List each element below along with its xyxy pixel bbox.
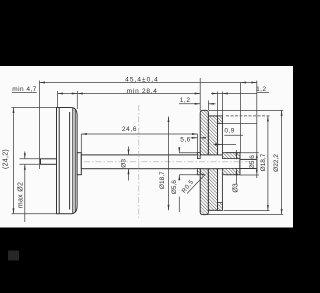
svg-text:1,2: 1,2 [180,97,191,104]
svg-text:Ø3: Ø3 [121,159,128,168]
svg-text:0,9: 0,9 [224,128,234,135]
svg-text:45,4±0,4: 45,4±0,4 [125,76,159,83]
svg-text:(24,2): (24,2) [3,149,10,169]
svg-text:Ø3: Ø3 [232,183,239,192]
svg-text:min 28,4: min 28,4 [127,88,158,95]
svg-text:min 4,7: min 4,7 [12,86,36,93]
svg-text:Ø5,6: Ø5,6 [171,180,178,194]
svg-text:Ø18,7: Ø18,7 [159,171,166,189]
svg-text:Ø22,2: Ø22,2 [273,154,280,172]
svg-text:5,6: 5,6 [180,137,190,144]
svg-text:1,2: 1,2 [256,86,266,93]
svg-text:Ø5,6: Ø5,6 [249,155,256,169]
svg-text:24,6: 24,6 [122,126,137,133]
svg-text:Ø18,7: Ø18,7 [260,153,267,171]
svg-text:max Ø2: max Ø2 [18,182,25,208]
